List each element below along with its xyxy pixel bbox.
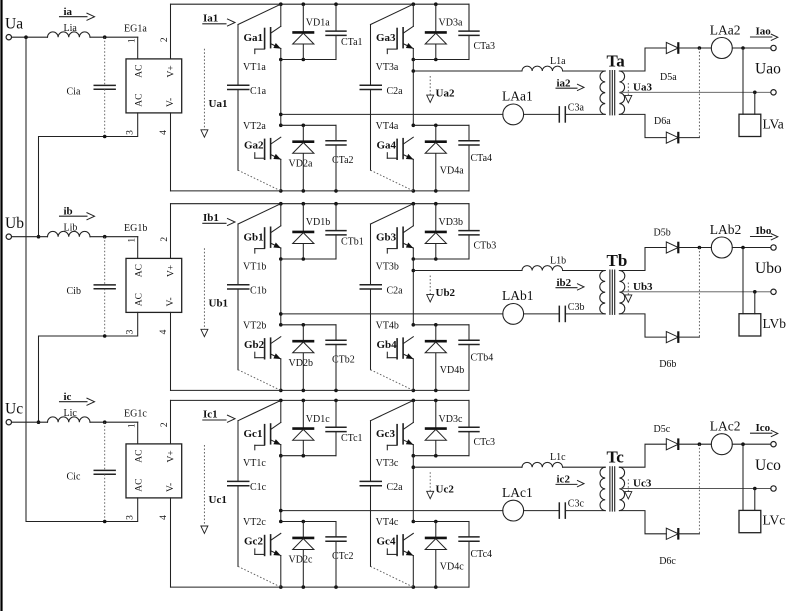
EG1a pin label AC bottom: [134, 93, 144, 106]
EG1c pin number 2: [160, 422, 170, 427]
svg-text:Ubo: Ubo: [755, 260, 782, 277]
wire gate outline vertical leg2 b: [370, 224, 372, 370]
EG1b pin number 4: [159, 329, 169, 334]
svg-text:VD2b: VD2b: [289, 358, 313, 369]
svg-text:CTc4: CTc4: [471, 549, 493, 560]
node mid leg2 c: [412, 454, 416, 458]
svg-text:EG1b: EG1b: [124, 223, 147, 234]
svg-text:3: 3: [125, 130, 135, 135]
capacitor CTa2: [325, 125, 353, 191]
svg-text:V-: V-: [166, 483, 176, 492]
wire gate outline vertical leg1 c: [237, 421, 239, 567]
wire C3a to transformer primary bottom: [565, 113, 605, 115]
svg-text:LVa: LVa: [763, 117, 784, 132]
EG1a pin label AC top: [134, 64, 144, 77]
wire top DC rail phase a: [171, 4, 470, 30]
svg-text:LAb1: LAb1: [502, 288, 534, 303]
node lower snubber tap leg2 b: [412, 323, 416, 327]
wire LAb2 to output terminal: [732, 247, 771, 249]
svg-text:CTc2: CTc2: [332, 551, 354, 562]
wire LAc2 to output terminal: [732, 443, 771, 445]
svg-text:4: 4: [159, 515, 169, 520]
current arrow ic2: [556, 474, 584, 487]
svg-text:Ia1: Ia1: [203, 13, 218, 25]
wire LAa2 to output terminal: [732, 47, 771, 49]
transistor VT3c (upper IGBT): [376, 423, 414, 470]
capacitor C3c: [559, 499, 584, 519]
wire mid node to snubbers upper leg1 a: [281, 59, 336, 61]
transformer Tc secondary winding: [607, 448, 625, 511]
transistor VT2b (lower IGBT): [243, 321, 281, 360]
wire lower snubber top wire leg2 a: [413, 124, 469, 126]
capacitor Cic: [67, 422, 116, 521]
svg-text:L1b: L1b: [550, 256, 566, 267]
svg-text:LAa1: LAa1: [502, 89, 533, 104]
svg-text:V-: V-: [166, 297, 176, 306]
svg-text:VD1a: VD1a: [306, 18, 330, 29]
capacitor CTa4: [458, 125, 492, 191]
wire lower snubber top wire leg1 a: [281, 124, 336, 126]
wire VT1b emitter to mid node: [280, 248, 282, 259]
wire leg2 c collector from rail: [412, 400, 414, 422]
wire leg1 output to LAc1 c: [281, 510, 503, 512]
svg-text:Cic: Cic: [67, 472, 81, 483]
svg-text:CTc3: CTc3: [474, 437, 496, 448]
wire D6c to link: [679, 533, 700, 535]
wire LAc1 to C3c: [524, 510, 560, 512]
svg-text:AC: AC: [134, 449, 144, 462]
junction VD3b anode: [434, 257, 438, 261]
svg-text:1: 1: [127, 423, 137, 428]
EG1b pin number 2: [160, 237, 170, 242]
diode D5a: [666, 42, 678, 54]
svg-text:D5c: D5c: [654, 424, 671, 435]
svg-text:Ua3: Ua3: [633, 82, 652, 94]
junction on Ua wire: [24, 35, 106, 39]
diode VD4c: [425, 522, 464, 588]
wire secondary top to D5a: [619, 48, 666, 71]
diode D6c: [666, 528, 678, 540]
svg-text:L1a: L1a: [550, 56, 566, 67]
wire gate outline upper leg2 b: [371, 204, 414, 224]
voltage arrow Ua1: [201, 49, 228, 137]
AC/DC module EG1b: [124, 223, 182, 313]
wire rectifier link D5-D6 b: [698, 248, 700, 338]
node leg1 output a: [279, 113, 283, 117]
wire D5b to output junction: [679, 247, 712, 249]
wire mid node to snubbers upper leg2 a: [413, 59, 469, 61]
svg-text:2: 2: [160, 422, 170, 427]
diode D6a: [666, 132, 678, 144]
svg-text:C1b: C1b: [250, 286, 267, 297]
capacitor CTc3: [458, 400, 495, 455]
diode VD4b: [425, 325, 464, 391]
voltage arrow Ub1: [201, 248, 228, 336]
junction VD2a cathode: [302, 124, 306, 128]
transistor VT1b (upper IGBT): [243, 226, 281, 273]
wire VT4b emitter to bottom rail: [412, 359, 414, 391]
capacitor CTb2: [325, 325, 354, 391]
junctions top rail a: [279, 2, 438, 6]
current arrow ib: [60, 205, 95, 220]
wire center tap to return terminal a: [619, 91, 770, 93]
label D6a: [654, 116, 671, 127]
EG1c pin number 3: [125, 515, 135, 520]
wire gate outline upper leg2 a: [371, 4, 414, 24]
svg-text:VD3a: VD3a: [439, 18, 463, 29]
capacitor C1a: [227, 85, 267, 97]
wire gate outline lower diagonal leg1 a: [238, 170, 281, 191]
EG1c pin number 4: [159, 515, 169, 520]
diode VD3a: [425, 4, 463, 59]
svg-text:VT2c: VT2c: [243, 517, 266, 528]
transformer Tb secondary winding: [607, 251, 628, 314]
wire D6b to link: [679, 336, 700, 338]
current arrow Ia1: [203, 13, 235, 27]
svg-text:L1c: L1c: [550, 452, 566, 463]
node leg1 output b: [279, 312, 283, 316]
wire VT2c emitter to bottom rail: [280, 556, 282, 588]
inductor L1a: [522, 56, 566, 71]
EG1a pin number 1: [127, 38, 137, 43]
svg-text:AC: AC: [134, 93, 144, 106]
label D6b: [659, 359, 676, 370]
inductor L1b: [522, 256, 566, 271]
svg-text:VT4c: VT4c: [376, 517, 399, 528]
diode VD3b: [425, 204, 463, 259]
wire gate outline vertical leg1 a: [237, 25, 239, 171]
junction output plus c: [741, 442, 745, 446]
svg-text:CTa3: CTa3: [474, 41, 496, 52]
wire EG1c pin 3 ring back to Ua: [26, 37, 138, 521]
wire center tap to return terminal c: [619, 488, 770, 490]
capacitor Cib: [67, 237, 116, 336]
svg-text:ib2: ib2: [557, 277, 572, 289]
transistor VT3b (upper IGBT): [376, 226, 414, 273]
EG1b pin label AC top: [134, 264, 144, 277]
svg-text:Uao: Uao: [755, 61, 781, 78]
wire C3b to transformer primary bottom: [565, 313, 605, 315]
wire gate outline lower diagonal leg1 c: [238, 566, 281, 587]
svg-text:C2a: C2a: [387, 286, 404, 297]
svg-text:VD3c: VD3c: [439, 414, 463, 425]
load LVb: [739, 314, 786, 336]
junction D5 output a: [698, 46, 702, 50]
junction VD3a anode: [434, 58, 438, 62]
svg-text:CTc1: CTc1: [341, 433, 363, 444]
wire leg1 a mid section: [280, 60, 282, 126]
node mid leg1 c: [279, 454, 283, 458]
EG1a pin label V-: [166, 98, 176, 107]
wire leg1 b mid section: [280, 259, 282, 325]
svg-text:VD4c: VD4c: [440, 562, 464, 573]
EG1c pin label V-: [166, 483, 176, 492]
wire secondary bottom to D6a: [619, 114, 666, 137]
wire gate outline vertical leg1 b: [237, 224, 239, 370]
capacitor C1c: [227, 481, 267, 493]
junction VD2c cathode: [302, 520, 306, 524]
current sensor LAc2: [710, 419, 741, 455]
svg-text:2: 2: [160, 237, 170, 242]
svg-text:Cib: Cib: [67, 286, 81, 297]
junctions bottom rail c: [279, 585, 438, 589]
svg-text:LVc: LVc: [763, 513, 786, 528]
node output terminal b return: [771, 289, 776, 294]
diode VD2a: [289, 125, 315, 191]
junctions bottom rail b: [279, 389, 438, 393]
junction on Uc wire: [103, 420, 107, 424]
node mid leg2 b: [412, 257, 416, 261]
wire load right lead a: [754, 92, 756, 114]
svg-text:Ua: Ua: [5, 16, 23, 33]
capacitor C3a: [559, 102, 584, 122]
node lower snubber tap leg1 c: [279, 520, 283, 524]
junction load return c: [753, 487, 757, 491]
junctions top rail b: [279, 202, 438, 206]
inductor Lia: [48, 23, 90, 37]
wire D5c to output junction: [679, 443, 712, 445]
diode VD2b: [289, 325, 315, 391]
wire VT1c emitter to mid node: [280, 445, 282, 456]
svg-text:Ic1: Ic1: [203, 409, 218, 421]
EG1a pin label V+: [167, 65, 177, 77]
svg-text:CTb4: CTb4: [471, 352, 494, 363]
transformer Tb core: [610, 270, 615, 315]
wire leg2 b collector from rail: [412, 204, 414, 226]
wire mid node to snubbers upper leg2 c: [413, 455, 469, 457]
svg-text:CTa2: CTa2: [332, 155, 354, 166]
svg-text:VT2b: VT2b: [243, 321, 266, 332]
svg-text:CTb1: CTb1: [341, 237, 364, 248]
node output terminal b plus: [771, 245, 776, 250]
capacitor Cia: [67, 37, 116, 136]
svg-text:VD2a: VD2a: [289, 158, 313, 169]
svg-text:VT3b: VT3b: [376, 262, 399, 273]
wire lower snubber top wire leg2 b: [413, 324, 469, 326]
wire D6a to link: [679, 137, 700, 139]
svg-text:Uco: Uco: [755, 457, 781, 474]
svg-text:CTa1: CTa1: [341, 37, 363, 48]
node output terminal a return: [771, 90, 776, 95]
svg-text:ic: ic: [64, 391, 72, 403]
wire EG1b V+ to bridge top rail: [170, 204, 172, 259]
junction pin3 wire row 2: [37, 334, 107, 424]
junction VD1b anode: [302, 257, 306, 261]
wire gate outline lower diagonal leg2 c: [371, 566, 414, 587]
svg-text:VT1a: VT1a: [243, 62, 266, 73]
svg-text:Gb3: Gb3: [376, 231, 397, 243]
EG1b pin label AC bottom: [134, 293, 144, 306]
node leg2 output b: [412, 269, 416, 273]
transistor VT4c (lower IGBT): [376, 517, 414, 556]
transformer Ta primary winding: [600, 71, 605, 114]
voltage arrow Ua3: [625, 82, 653, 103]
svg-text:VD1b: VD1b: [306, 217, 330, 228]
capacitor CTb4: [458, 325, 493, 391]
current sensor LAa1: [502, 89, 533, 125]
wire leg1 b collector from rail: [280, 204, 282, 226]
svg-text:Cia: Cia: [67, 87, 81, 98]
svg-text:Ub: Ub: [5, 215, 24, 232]
capacitor CTc2: [325, 522, 353, 588]
transistor VT4b (lower IGBT): [376, 321, 414, 360]
svg-text:VT4b: VT4b: [376, 321, 399, 332]
svg-text:Ub3: Ub3: [633, 281, 653, 293]
current arrow ic: [60, 391, 95, 406]
svg-text:V+: V+: [167, 65, 177, 77]
diode D5c: [666, 438, 678, 450]
current sensor LAa2: [710, 22, 741, 58]
junction VD1a anode: [302, 58, 306, 62]
svg-text:Gc3: Gc3: [376, 428, 395, 440]
capacitor C3b: [559, 302, 584, 322]
diode VD1b: [292, 204, 330, 259]
transistor VT1c (upper IGBT): [243, 423, 281, 470]
transformer Tc core: [610, 466, 615, 511]
capacitor C2a: [360, 285, 404, 297]
wire leg2 b mid section: [412, 259, 414, 325]
node Ua input terminal: [5, 16, 23, 40]
svg-text:Ta: Ta: [607, 52, 626, 71]
junction pin3 wire row 3: [103, 520, 107, 524]
wire gate outline upper leg2 c: [371, 400, 414, 420]
wire leg1 c collector from rail: [280, 400, 282, 422]
wire EG1c V+ to bridge top rail: [170, 400, 172, 444]
junction VD4b cathode: [434, 323, 438, 327]
node output terminal c plus: [771, 442, 776, 447]
svg-text:D5b: D5b: [654, 227, 671, 238]
label D5b: [654, 227, 671, 238]
wire gate outline upper leg1 c: [238, 400, 281, 420]
svg-text:AC: AC: [134, 478, 144, 491]
svg-text:Ico: Ico: [756, 422, 771, 434]
svg-text:Ib1: Ib1: [203, 212, 219, 224]
svg-text:C3c: C3c: [568, 499, 585, 510]
diode D6b: [666, 331, 678, 343]
wire LAa1 to C3a: [524, 113, 560, 115]
wire VT2b emitter to bottom rail: [280, 359, 282, 391]
wire EG1b pin 3 to next phase input: [39, 312, 138, 422]
wire bottom DC rail phase b: [171, 389, 470, 391]
svg-text:1: 1: [127, 238, 137, 243]
transistor VT2a (lower IGBT): [243, 121, 281, 160]
svg-text:D6b: D6b: [659, 359, 676, 370]
node leg2 output a: [412, 69, 416, 73]
svg-text:ia2: ia2: [557, 77, 572, 89]
junction VD4a cathode: [434, 124, 438, 128]
capacitor C2a: [360, 481, 404, 493]
wire VT4c emitter to bottom rail: [412, 556, 414, 588]
wire top DC rail phase c: [171, 400, 470, 426]
wire leg1 output to LAa1 a: [281, 113, 503, 115]
svg-text:C1a: C1a: [250, 86, 267, 97]
current arrow Iao: [751, 26, 778, 41]
svg-text:Lib: Lib: [64, 223, 78, 234]
svg-text:V+: V+: [167, 450, 177, 462]
svg-text:1: 1: [127, 38, 137, 43]
current arrow Ib1: [203, 212, 235, 226]
wire lower snubber top wire leg1 b: [281, 324, 336, 326]
wire EG1b V- to bridge bottom rail: [170, 312, 172, 390]
junction VD3c anode: [434, 454, 438, 458]
svg-text:Ub1: Ub1: [209, 298, 229, 310]
wire secondary top to D5c: [619, 444, 666, 467]
EG1c pin label AC top: [134, 449, 144, 462]
svg-text:D5a: D5a: [660, 72, 677, 83]
capacitor CTb1: [325, 204, 363, 259]
node lower snubber tap leg1 a: [279, 124, 283, 128]
current arrow Ico: [751, 422, 778, 437]
wire bottom DC rail phase a: [171, 190, 470, 192]
node leg1 output c: [279, 509, 283, 513]
svg-text:VD4a: VD4a: [440, 165, 464, 176]
svg-text:CTb3: CTb3: [474, 241, 497, 252]
svg-text:ic2: ic2: [557, 474, 571, 486]
svg-text:Uc2: Uc2: [436, 484, 455, 496]
wire Uc input to EG1c pin 1: [12, 422, 138, 444]
svg-text:AC: AC: [134, 264, 144, 277]
wire rectifier link D5-D6 a: [698, 48, 700, 138]
EG1a pin number 4: [159, 130, 169, 135]
wire leg2 output to transformer primary top c: [413, 466, 605, 468]
svg-text:LAb2: LAb2: [710, 222, 742, 237]
voltage arrow Ua2: [427, 76, 455, 103]
transistor VT4a (lower IGBT): [376, 121, 414, 160]
svg-text:Gc1: Gc1: [244, 428, 263, 440]
svg-text:C1c: C1c: [250, 482, 267, 493]
wire LAb1 to C3b: [524, 313, 560, 315]
svg-text:D6a: D6a: [654, 116, 671, 127]
EG1c pin label AC bottom: [134, 478, 144, 491]
transformer Tb primary winding: [600, 271, 605, 314]
AC/DC module EG1c: [124, 408, 182, 498]
label D6c: [659, 556, 676, 567]
transformer Tc primary winding: [600, 467, 605, 510]
svg-text:AC: AC: [134, 64, 144, 77]
current arrow Ic1: [203, 409, 235, 423]
svg-text:Ub2: Ub2: [436, 287, 456, 299]
wire lower snubber top wire leg1 c: [281, 521, 336, 523]
svg-text:Ua1: Ua1: [209, 98, 228, 110]
capacitor CTc4: [458, 522, 492, 588]
wire load right lead b: [754, 292, 756, 314]
wire VT3b emitter to mid node: [412, 248, 414, 259]
voltage arrow Ub3: [625, 281, 653, 302]
wire rectifier link D5-D6 c: [698, 444, 700, 534]
wire bottom DC rail phase c: [171, 586, 470, 588]
label D5c: [654, 424, 671, 435]
svg-text:VT1b: VT1b: [243, 262, 266, 273]
wire leg2 a mid section: [412, 60, 414, 126]
wire D5a to output junction: [679, 47, 712, 49]
capacitor CTb3: [458, 204, 496, 259]
node leg2 output c: [412, 465, 416, 469]
wire leg2 output to transformer primary top a: [413, 70, 605, 72]
wire leg2 a collector from rail: [412, 4, 414, 26]
svg-text:EG1c: EG1c: [124, 408, 147, 419]
svg-text:VD4b: VD4b: [440, 365, 464, 376]
wire gate outline upper leg1 a: [238, 4, 281, 24]
svg-text:Ga4: Ga4: [377, 140, 397, 152]
svg-text:C3b: C3b: [568, 302, 585, 313]
wire load left lead c: [742, 444, 744, 510]
inductor Lib: [48, 223, 90, 237]
current sensor LAc1: [502, 485, 533, 521]
wire VT3c emitter to mid node: [412, 445, 414, 456]
diode VD3c: [425, 400, 463, 455]
svg-text:Tb: Tb: [607, 251, 628, 270]
svg-text:AC: AC: [134, 293, 144, 306]
